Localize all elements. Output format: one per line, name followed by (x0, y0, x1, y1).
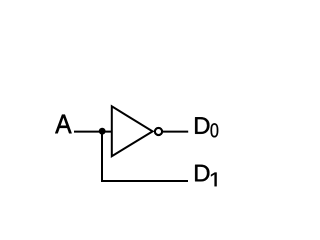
wire bottom horizontal to D1 (101, 180, 188, 182)
wire from bubble to D0 (162, 131, 188, 133)
node D1 label, letter D (195, 165, 209, 182)
node D0 label, letter D (195, 117, 209, 134)
node D0 subscript 0 (211, 123, 219, 137)
node A label (55, 115, 71, 134)
inverter bubble (155, 128, 162, 135)
node D1 subscript 1 (211, 173, 217, 187)
wire from A to inverter input (74, 131, 113, 133)
wire vertical branch down from junction (101, 132, 103, 182)
junction dot (99, 128, 106, 135)
inverter U1 triangle (112, 106, 153, 156)
